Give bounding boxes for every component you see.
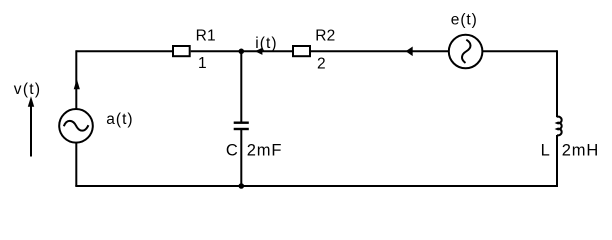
AC source e(t) circle [449,35,483,69]
wire R2 to e(t) source [311,50,449,52]
wire right vertical lower [556,135,558,186]
AC source a(t) sine [64,121,89,131]
wire a(t) bottom to corner [75,143,77,186]
svg-text:1: 1 [198,55,207,72]
node junction top [239,49,245,55]
svg-text:a(t): a(t) [106,111,133,128]
wire R1 to R2 [191,50,293,52]
svg-text:C: C [226,142,238,160]
svg-text:L: L [541,142,550,160]
wire capacitor top stub [240,51,242,122]
wire right vertical upper [556,50,558,117]
AC source e(t) vertical sine [462,40,471,63]
svg-text:i(t): i(t) [255,35,277,52]
AC source a(t) circle [59,109,93,143]
svg-text:e(t): e(t) [451,12,478,29]
svg-text:R1: R1 [196,28,216,45]
svg-text:2mH: 2mH [562,142,600,160]
svg-text:2mF: 2mF [247,142,283,160]
capacitor C1 top plate [234,121,249,123]
capacitor C1 bottom plate [234,128,249,130]
voltage arrow v(t) head [28,96,34,106]
node junction bottom [239,183,245,189]
svg-text:2: 2 [317,56,326,73]
current arrow i(t) head [255,48,263,55]
voltage arrow v(t) line [30,105,32,157]
arrowhead left near e(t) [406,47,413,57]
wire e(t) to top right corner [483,50,558,52]
inductor L1 coil [557,117,562,136]
arrowhead up on left branch [74,79,80,89]
wire top left horizontal [76,50,172,52]
wire capacitor bottom stub [240,130,242,186]
svg-text:R2: R2 [315,28,335,45]
resistor R1 [173,46,190,56]
svg-text:v(t): v(t) [14,81,42,98]
wire bottom horizontal [75,185,558,187]
wire left vertical (corner to a(t) top) [75,50,77,109]
resistor R2 [293,46,310,56]
